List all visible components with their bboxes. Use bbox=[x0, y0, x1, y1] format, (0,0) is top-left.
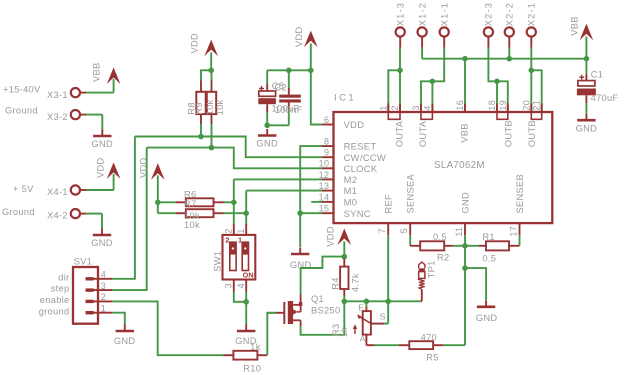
junction sense gnd bbox=[462, 265, 468, 271]
wire dir up bbox=[112, 137, 135, 279]
label C2 bbox=[275, 82, 287, 92]
svg-text:CLOCK: CLOCK bbox=[344, 163, 378, 174]
svg-text:R6: R6 bbox=[184, 189, 196, 199]
svg-text:VDD: VDD bbox=[344, 119, 365, 130]
pin number 3 (SW1) bbox=[223, 283, 233, 288]
resistor R8 bbox=[187, 81, 206, 125]
resistor R2 bbox=[410, 235, 465, 250]
junction pin 4 bbox=[430, 79, 436, 85]
pin number 5 bbox=[399, 228, 409, 233]
value 100nF bbox=[275, 105, 303, 115]
supply VDD (top middle) bbox=[294, 26, 318, 47]
pin 4 dir (SV1) bbox=[58, 270, 112, 283]
resistor R6 bbox=[158, 198, 234, 206]
pin number 16 bbox=[455, 100, 465, 111]
label R3 bbox=[331, 324, 341, 336]
svg-text:OUTB: OUTB bbox=[503, 120, 513, 147]
svg-text:Q1: Q1 bbox=[311, 294, 324, 304]
transistor Q1 BS250 bbox=[267, 301, 303, 327]
svg-text:10k: 10k bbox=[184, 220, 200, 230]
svg-text:1: 1 bbox=[236, 228, 246, 233]
svg-text:VBB: VBB bbox=[569, 16, 579, 36]
svg-text:C2: C2 bbox=[275, 82, 287, 92]
value 1k (R10) bbox=[250, 342, 260, 352]
value 100uF bbox=[272, 103, 300, 113]
wire VDD arrow to R6/R7 bbox=[157, 175, 159, 213]
pin number 3 bbox=[411, 105, 421, 110]
svg-text:20: 20 bbox=[521, 100, 531, 111]
svg-text:2: 2 bbox=[101, 292, 106, 302]
svg-text:GND: GND bbox=[114, 336, 136, 346]
wire dir/R8 to CW/CCW pin9 bbox=[135, 137, 322, 158]
svg-text:R7: R7 bbox=[184, 199, 196, 209]
resistor R9 bbox=[194, 70, 216, 124]
svg-text:X1-2: X1-2 bbox=[417, 2, 427, 26]
pin 13 M1 bbox=[319, 181, 358, 196]
svg-text:10k: 10k bbox=[215, 99, 225, 115]
svg-text:2: 2 bbox=[223, 228, 233, 233]
svg-text:X2-3: X2-3 bbox=[484, 2, 494, 26]
pin number 2 (SW1) bbox=[223, 228, 233, 233]
connector pad X2-1 bbox=[527, 2, 537, 48]
resistor R10 bbox=[224, 351, 268, 360]
bracket pins 20/21 bbox=[531, 113, 541, 120]
wire pin11 GND net bbox=[464, 235, 466, 345]
svg-text:REF: REF bbox=[384, 194, 394, 214]
wire M0 pin14 stub bbox=[311, 201, 321, 203]
wire VDD to R4 bbox=[343, 242, 345, 259]
supply VDD (R6/R7) bbox=[139, 157, 165, 179]
pin name OUTA (1/2) bbox=[395, 120, 405, 147]
svg-text:VDD: VDD bbox=[139, 157, 149, 178]
pin name VBB (16) bbox=[459, 123, 469, 143]
pin 1 ground (SV1) bbox=[39, 304, 112, 317]
junction REF R4 bbox=[342, 299, 348, 305]
svg-text:0.5: 0.5 bbox=[433, 232, 447, 242]
junction step R9 bbox=[209, 145, 215, 151]
pin name SENSEA bbox=[406, 173, 416, 213]
junction R6 left bbox=[155, 200, 161, 206]
pin 6 VDD bbox=[322, 115, 365, 130]
svg-text:X2-1: X2-1 bbox=[527, 2, 537, 26]
wire X4-1 to VDD bbox=[86, 174, 114, 190]
svg-text:11: 11 bbox=[454, 227, 464, 237]
svg-text:M1: M1 bbox=[344, 185, 358, 196]
pin 2 enable (SV1) bbox=[40, 292, 112, 305]
svg-text:4: 4 bbox=[236, 283, 246, 288]
testpoint TP1 bbox=[419, 262, 425, 301]
svg-text:Ground: Ground bbox=[2, 207, 35, 217]
junction SYNC bbox=[297, 210, 303, 216]
wire X2-1 to pins 20/21 bbox=[531, 48, 541, 112]
pin 17 stub bbox=[519, 223, 521, 235]
svg-text:R1: R1 bbox=[482, 232, 494, 242]
junction REF R3 bbox=[364, 299, 370, 305]
value 10k (R8) bbox=[205, 99, 215, 115]
wire SW1 to GND bbox=[234, 292, 246, 325]
svg-text:X3-2: X3-2 bbox=[47, 112, 68, 122]
svg-text:9: 9 bbox=[324, 148, 329, 158]
svg-text:ground: ground bbox=[39, 306, 70, 316]
pin 9 CW/CCW bbox=[322, 148, 386, 163]
svg-text:enable: enable bbox=[40, 295, 70, 305]
svg-text:15: 15 bbox=[319, 204, 330, 214]
svg-text:VBB: VBB bbox=[92, 62, 102, 82]
pin name GND bbox=[461, 192, 471, 214]
wire VDD to Q1 source bbox=[301, 257, 345, 302]
svg-text:0.5: 0.5 bbox=[482, 254, 496, 264]
supply VBB (left) bbox=[92, 62, 121, 84]
wire X3-2 to GND bbox=[86, 115, 102, 130]
pin name OUTB (18/19) bbox=[503, 120, 513, 147]
svg-text:3: 3 bbox=[101, 281, 106, 291]
capacitor C1 bbox=[577, 59, 596, 114]
svg-text:step: step bbox=[51, 284, 70, 294]
svg-text:VDD: VDD bbox=[326, 226, 336, 247]
wire REF net bbox=[344, 300, 422, 302]
pin 7 stub bbox=[387, 223, 389, 235]
svg-text:SYNC: SYNC bbox=[344, 208, 371, 219]
resistor R1 bbox=[465, 235, 520, 250]
svg-text:GND: GND bbox=[576, 124, 598, 134]
pin number 20 bbox=[521, 100, 531, 111]
svg-text:A: A bbox=[360, 333, 366, 343]
bracket pins 3/4 bbox=[421, 113, 432, 120]
pin number 4 (SW1) bbox=[236, 283, 246, 288]
svg-text:SW1: SW1 bbox=[212, 251, 222, 272]
svg-text:RESET: RESET bbox=[344, 141, 377, 152]
junction sense R2/R1 bbox=[462, 243, 468, 249]
value 4.7k bbox=[351, 273, 361, 292]
capacitor C8 bbox=[258, 70, 276, 125]
wire M1 pin13 to SW1 bbox=[246, 191, 321, 224]
svg-text:1k: 1k bbox=[339, 327, 349, 337]
wire VBB rail bbox=[422, 48, 586, 59]
svg-text:4.7k: 4.7k bbox=[351, 273, 361, 292]
svg-text:R2: R2 bbox=[437, 253, 449, 263]
label R6 bbox=[184, 189, 196, 199]
junction VBB pin16 bbox=[462, 56, 468, 62]
junction node OUTB bbox=[529, 68, 535, 74]
svg-text:+ 5V: + 5V bbox=[13, 184, 34, 194]
svg-text:X2-2: X2-2 bbox=[505, 2, 515, 26]
svg-text:GND: GND bbox=[476, 313, 498, 323]
svg-text:OUTA: OUTA bbox=[418, 120, 428, 147]
svg-text:470: 470 bbox=[421, 333, 437, 343]
svg-text:VBB: VBB bbox=[459, 123, 469, 143]
wire X2-2 stub bbox=[508, 48, 510, 59]
label TP1 bbox=[427, 260, 437, 278]
svg-text:M0: M0 bbox=[344, 197, 358, 208]
ground GND (RESET/SYNC) bbox=[290, 248, 312, 270]
value 10k (R6) bbox=[184, 211, 200, 221]
pin 8 RESET bbox=[322, 137, 377, 152]
pin 14 M0 bbox=[319, 192, 358, 207]
svg-text:M2: M2 bbox=[344, 174, 358, 185]
label R4 bbox=[330, 277, 340, 289]
value 470 (R5) bbox=[421, 333, 437, 343]
wire gnd to R5 bbox=[443, 344, 465, 346]
svg-text:6: 6 bbox=[324, 115, 329, 125]
svg-text:OUTA: OUTA bbox=[395, 120, 405, 147]
wire step/R9 to CLOCK pin10 bbox=[147, 148, 322, 169]
wire X1-3 to pins 1/2 bbox=[388, 48, 400, 112]
junction VBB C1 bbox=[584, 56, 590, 62]
pin number 17 bbox=[509, 226, 519, 237]
label R1 bbox=[482, 232, 494, 242]
svg-text:21: 21 bbox=[532, 100, 542, 111]
svg-text:8: 8 bbox=[324, 137, 329, 147]
svg-text:X3-1: X3-1 bbox=[47, 90, 68, 100]
resistor R5 bbox=[366, 341, 443, 349]
pin 15 SYNC bbox=[319, 204, 371, 219]
label C8 bbox=[272, 81, 284, 91]
value 470uF bbox=[591, 93, 619, 103]
svg-text:100nF: 100nF bbox=[275, 105, 303, 115]
svg-text:C1: C1 bbox=[591, 70, 603, 80]
svg-text:19: 19 bbox=[498, 100, 508, 111]
label BS250 bbox=[311, 306, 340, 316]
junction dir R8 bbox=[198, 134, 204, 140]
pin name E bbox=[358, 302, 364, 312]
wire X2-3 to pins 18/19 bbox=[488, 48, 507, 112]
wire VDD to R8/R9 bbox=[201, 53, 211, 81]
svg-text:R9: R9 bbox=[194, 102, 204, 114]
pin number 4 bbox=[422, 105, 432, 110]
supply VDD (X4) bbox=[96, 157, 121, 178]
pin stubs top bbox=[388, 104, 541, 113]
wire VDD arrow to rail bbox=[310, 44, 312, 71]
connector SV1 body bbox=[73, 257, 98, 324]
svg-text:VDD: VDD bbox=[190, 33, 200, 54]
junction C2 top bbox=[286, 68, 292, 74]
wire to GND (sense) bbox=[465, 268, 486, 300]
svg-text:470uF: 470uF bbox=[591, 93, 619, 103]
connector pad X3-1 (+15-40V) bbox=[3, 85, 86, 101]
svg-text:4: 4 bbox=[422, 105, 432, 110]
label R10 bbox=[243, 363, 261, 373]
svg-text:17: 17 bbox=[509, 226, 519, 237]
wire enable to R10 bbox=[112, 301, 224, 355]
pin number 2 bbox=[390, 105, 400, 110]
svg-text:GND: GND bbox=[256, 139, 278, 149]
svg-text:X4-1: X4-1 bbox=[47, 187, 68, 197]
svg-text:13: 13 bbox=[319, 181, 330, 191]
svg-text:OUTB: OUTB bbox=[527, 120, 537, 147]
svg-text:VDD: VDD bbox=[96, 157, 106, 178]
pin 12 M2 bbox=[319, 170, 358, 185]
ground GND (SW1) bbox=[235, 325, 257, 346]
svg-text:1: 1 bbox=[101, 304, 106, 314]
svg-text:7: 7 bbox=[377, 228, 387, 233]
pin number 19 bbox=[498, 100, 508, 111]
svg-text:GND: GND bbox=[461, 192, 471, 214]
wire X4-2 to GND bbox=[86, 214, 102, 229]
wire SV1 ground bbox=[112, 313, 125, 325]
pin number 11 bbox=[454, 227, 464, 237]
value 10k (R7) bbox=[184, 220, 200, 230]
svg-text:TP1: TP1 bbox=[427, 260, 437, 278]
ground GND (SV1) bbox=[114, 325, 136, 346]
svg-text:Ground: Ground bbox=[5, 106, 38, 116]
bracket pins 18/19 bbox=[497, 113, 508, 120]
pin number 1 (SW1) bbox=[236, 228, 246, 233]
svg-text:5: 5 bbox=[399, 228, 409, 233]
ground GND (C1) bbox=[576, 114, 598, 134]
pin number 18 bbox=[487, 100, 497, 111]
svg-text:E: E bbox=[358, 302, 364, 312]
pin name OUTA (3/4) bbox=[418, 120, 428, 147]
pin name A bbox=[360, 333, 366, 343]
label SLA7062M bbox=[434, 160, 485, 171]
label Q1 bbox=[311, 294, 324, 304]
pin 11 stub bbox=[464, 223, 466, 235]
svg-text:GND: GND bbox=[91, 238, 113, 248]
junction SW1 gnd bbox=[243, 299, 249, 305]
ground GND (X3) bbox=[92, 130, 114, 150]
value 0.5 (R2) bbox=[433, 232, 447, 242]
pin name S bbox=[380, 311, 386, 321]
svg-text:4: 4 bbox=[101, 270, 106, 280]
ground GND (sense) bbox=[476, 300, 498, 323]
supply VDD (R4) bbox=[326, 226, 352, 247]
wire step up bbox=[112, 148, 147, 291]
label SW1 bbox=[212, 251, 222, 272]
resistor R7 bbox=[158, 209, 246, 217]
wire X3-1 to VBB bbox=[86, 79, 114, 93]
op-amp/driver IC1 SLA7062M body bbox=[334, 112, 553, 223]
svg-text:2: 2 bbox=[225, 235, 229, 244]
wire R10 to Q1 gate bbox=[267, 313, 276, 355]
wire VDD rail (C8/C2) bbox=[267, 69, 311, 71]
svg-text:R4: R4 bbox=[330, 277, 340, 289]
value 1k (R3) bbox=[339, 327, 349, 337]
connector pad X4-2 (Ground) bbox=[2, 207, 86, 221]
svg-text:+15-40V: +15-40V bbox=[3, 85, 41, 95]
junction M2 R6 bbox=[231, 200, 237, 206]
ground GND (X4) bbox=[91, 229, 113, 249]
wire X1-1 to pins 3/4 bbox=[421, 48, 444, 112]
svg-text:BS250: BS250 bbox=[311, 306, 340, 316]
junction REF pin7 bbox=[385, 299, 391, 305]
resistor R4 bbox=[340, 259, 348, 302]
svg-text:GND: GND bbox=[92, 139, 114, 149]
svg-text:ON: ON bbox=[243, 271, 254, 280]
wire R8 to dir bus bbox=[200, 124, 202, 136]
value 0.5 (R1) bbox=[482, 254, 496, 264]
svg-text:1: 1 bbox=[378, 105, 388, 110]
pin name REF bbox=[384, 194, 394, 214]
svg-text:IC1: IC1 bbox=[334, 93, 356, 104]
svg-text:VDD: VDD bbox=[294, 26, 304, 47]
svg-text:18: 18 bbox=[487, 100, 497, 111]
wire VBB arrow to rail bbox=[585, 37, 587, 59]
supply VBB (right) bbox=[569, 16, 593, 40]
bracket pins 1/2 bbox=[388, 113, 400, 120]
wire VDD to IC pin 6 bbox=[311, 70, 322, 124]
connector pad X1-2 bbox=[417, 2, 427, 48]
svg-text:14: 14 bbox=[319, 192, 330, 202]
capacitor C2 bbox=[267, 70, 301, 125]
connector pad X1-1 bbox=[440, 2, 450, 48]
svg-text:12: 12 bbox=[319, 170, 330, 180]
svg-text:SENSEA: SENSEA bbox=[406, 173, 416, 213]
connector pad X2-3 bbox=[484, 2, 494, 48]
junction pin 18 bbox=[494, 79, 500, 85]
label R5 bbox=[426, 353, 438, 363]
label IC1 bbox=[334, 93, 356, 104]
wire R3 wiper to REF bbox=[371, 301, 388, 323]
junction R8/R9 VDD bbox=[208, 68, 214, 74]
svg-text:3: 3 bbox=[223, 283, 233, 288]
svg-text:CW/CCW: CW/CCW bbox=[344, 152, 386, 163]
pin name OUTB (20/21) bbox=[527, 120, 537, 147]
pin number 1 bbox=[378, 105, 388, 110]
svg-text:R5: R5 bbox=[426, 353, 438, 363]
pin number 21 bbox=[532, 100, 542, 111]
pin number 7 bbox=[377, 228, 387, 233]
wire VBB to pin 16 bbox=[464, 59, 466, 112]
pin 10 CLOCK bbox=[319, 159, 378, 174]
junction VBB X2-2 bbox=[507, 56, 513, 62]
svg-text:X1-3: X1-3 bbox=[396, 2, 406, 26]
label C1 bbox=[591, 70, 603, 80]
svg-text:SENSEB: SENSEB bbox=[515, 174, 525, 214]
pin name SENSEB bbox=[515, 174, 525, 214]
connector pad X2-2 bbox=[505, 2, 515, 48]
value 10k (R9) bbox=[215, 99, 225, 115]
svg-text:3: 3 bbox=[411, 105, 421, 110]
connector pad X3-2 (Ground) bbox=[5, 106, 86, 123]
svg-text:16: 16 bbox=[455, 100, 465, 111]
wire pin7 REF bbox=[387, 235, 389, 301]
wire RESET/SYNC to GND bbox=[300, 146, 321, 247]
svg-text:10k: 10k bbox=[205, 99, 215, 115]
pin 3 step (SV1) bbox=[51, 281, 112, 294]
svg-text:R10: R10 bbox=[243, 363, 261, 373]
svg-text:S: S bbox=[380, 311, 386, 321]
label R7 bbox=[184, 199, 196, 209]
connector pad X1-3 bbox=[396, 2, 406, 48]
svg-text:1k: 1k bbox=[250, 342, 260, 352]
ground GND (C8/C2) bbox=[256, 129, 278, 149]
switch SW1 body bbox=[223, 224, 256, 292]
svg-text:SLA7062M: SLA7062M bbox=[434, 160, 485, 171]
wire Q1 drain to REF bbox=[301, 301, 345, 335]
svg-text:X4-2: X4-2 bbox=[47, 211, 68, 221]
svg-text:X1-1: X1-1 bbox=[440, 2, 450, 26]
wire R9 to step bus bbox=[211, 124, 213, 148]
supply VDD (R8/R9) bbox=[190, 33, 219, 56]
svg-text:10: 10 bbox=[319, 159, 330, 169]
trimmer R3 bbox=[353, 301, 372, 345]
junction M1 R7 bbox=[243, 210, 249, 216]
junction VDD arrow/pin6 bbox=[308, 68, 314, 74]
junction C8/C2 gnd bbox=[264, 123, 270, 129]
svg-text:2: 2 bbox=[390, 105, 400, 110]
wire M2 pin12 to SW1 bbox=[234, 179, 322, 223]
connector pad X4-1 (+5V) bbox=[13, 184, 86, 197]
svg-text:dir: dir bbox=[58, 272, 69, 282]
junction node OUTA bbox=[397, 68, 403, 74]
junction VDD Q1/R4 bbox=[342, 254, 348, 260]
pin 5 stub bbox=[409, 223, 411, 235]
svg-text:SV1: SV1 bbox=[74, 257, 92, 267]
label R2 bbox=[437, 253, 449, 263]
